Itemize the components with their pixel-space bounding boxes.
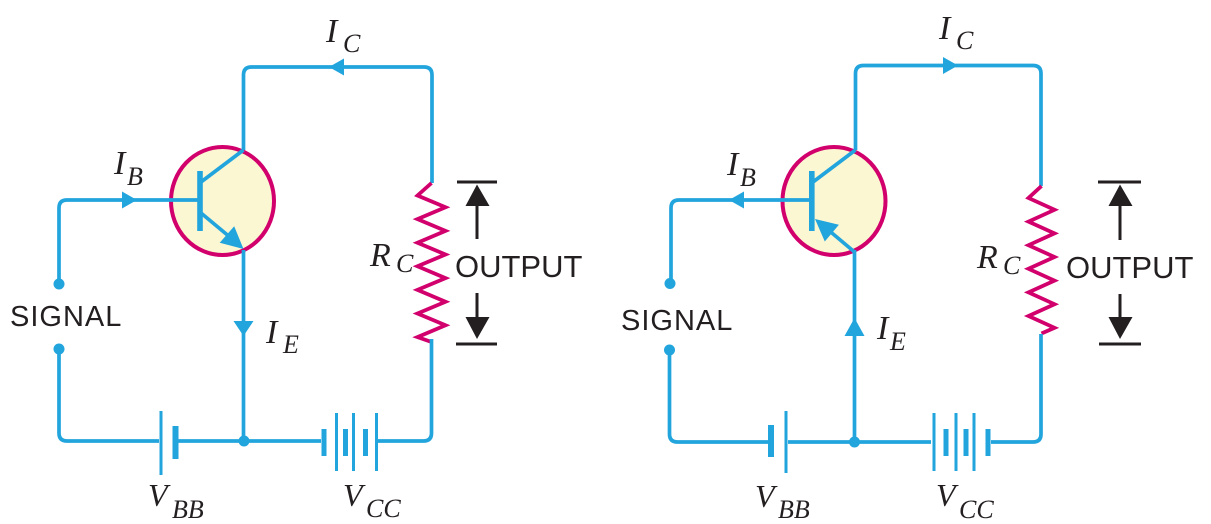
svg-text:OUTPUT: OUTPUT xyxy=(455,249,583,284)
svg-text:V: V xyxy=(148,477,171,513)
svg-text:R: R xyxy=(369,237,391,274)
svg-text:CC: CC xyxy=(366,494,401,523)
svg-text:C: C xyxy=(343,29,361,58)
svg-text:C: C xyxy=(1003,251,1021,280)
svg-text:V: V xyxy=(343,477,366,513)
svg-text:C: C xyxy=(956,26,974,55)
svg-text:E: E xyxy=(889,327,906,356)
svg-text:SIGNAL: SIGNAL xyxy=(621,305,733,337)
svg-text:C: C xyxy=(396,249,414,278)
svg-text:V: V xyxy=(936,477,959,513)
svg-text:B: B xyxy=(127,162,143,191)
svg-text:I: I xyxy=(113,145,127,182)
svg-text:SIGNAL: SIGNAL xyxy=(10,301,122,333)
svg-text:BB: BB xyxy=(778,495,810,524)
svg-text:CC: CC xyxy=(959,495,994,524)
svg-text:I: I xyxy=(938,10,952,47)
svg-text:OUTPUT: OUTPUT xyxy=(1066,250,1194,285)
svg-text:I: I xyxy=(726,146,740,183)
svg-text:B: B xyxy=(740,163,756,192)
svg-text:V: V xyxy=(755,478,778,514)
svg-text:I: I xyxy=(876,310,890,347)
svg-text:I: I xyxy=(325,13,339,50)
svg-text:BB: BB xyxy=(172,495,204,524)
svg-text:R: R xyxy=(976,239,998,276)
svg-text:E: E xyxy=(282,330,299,359)
svg-text:I: I xyxy=(265,314,279,351)
